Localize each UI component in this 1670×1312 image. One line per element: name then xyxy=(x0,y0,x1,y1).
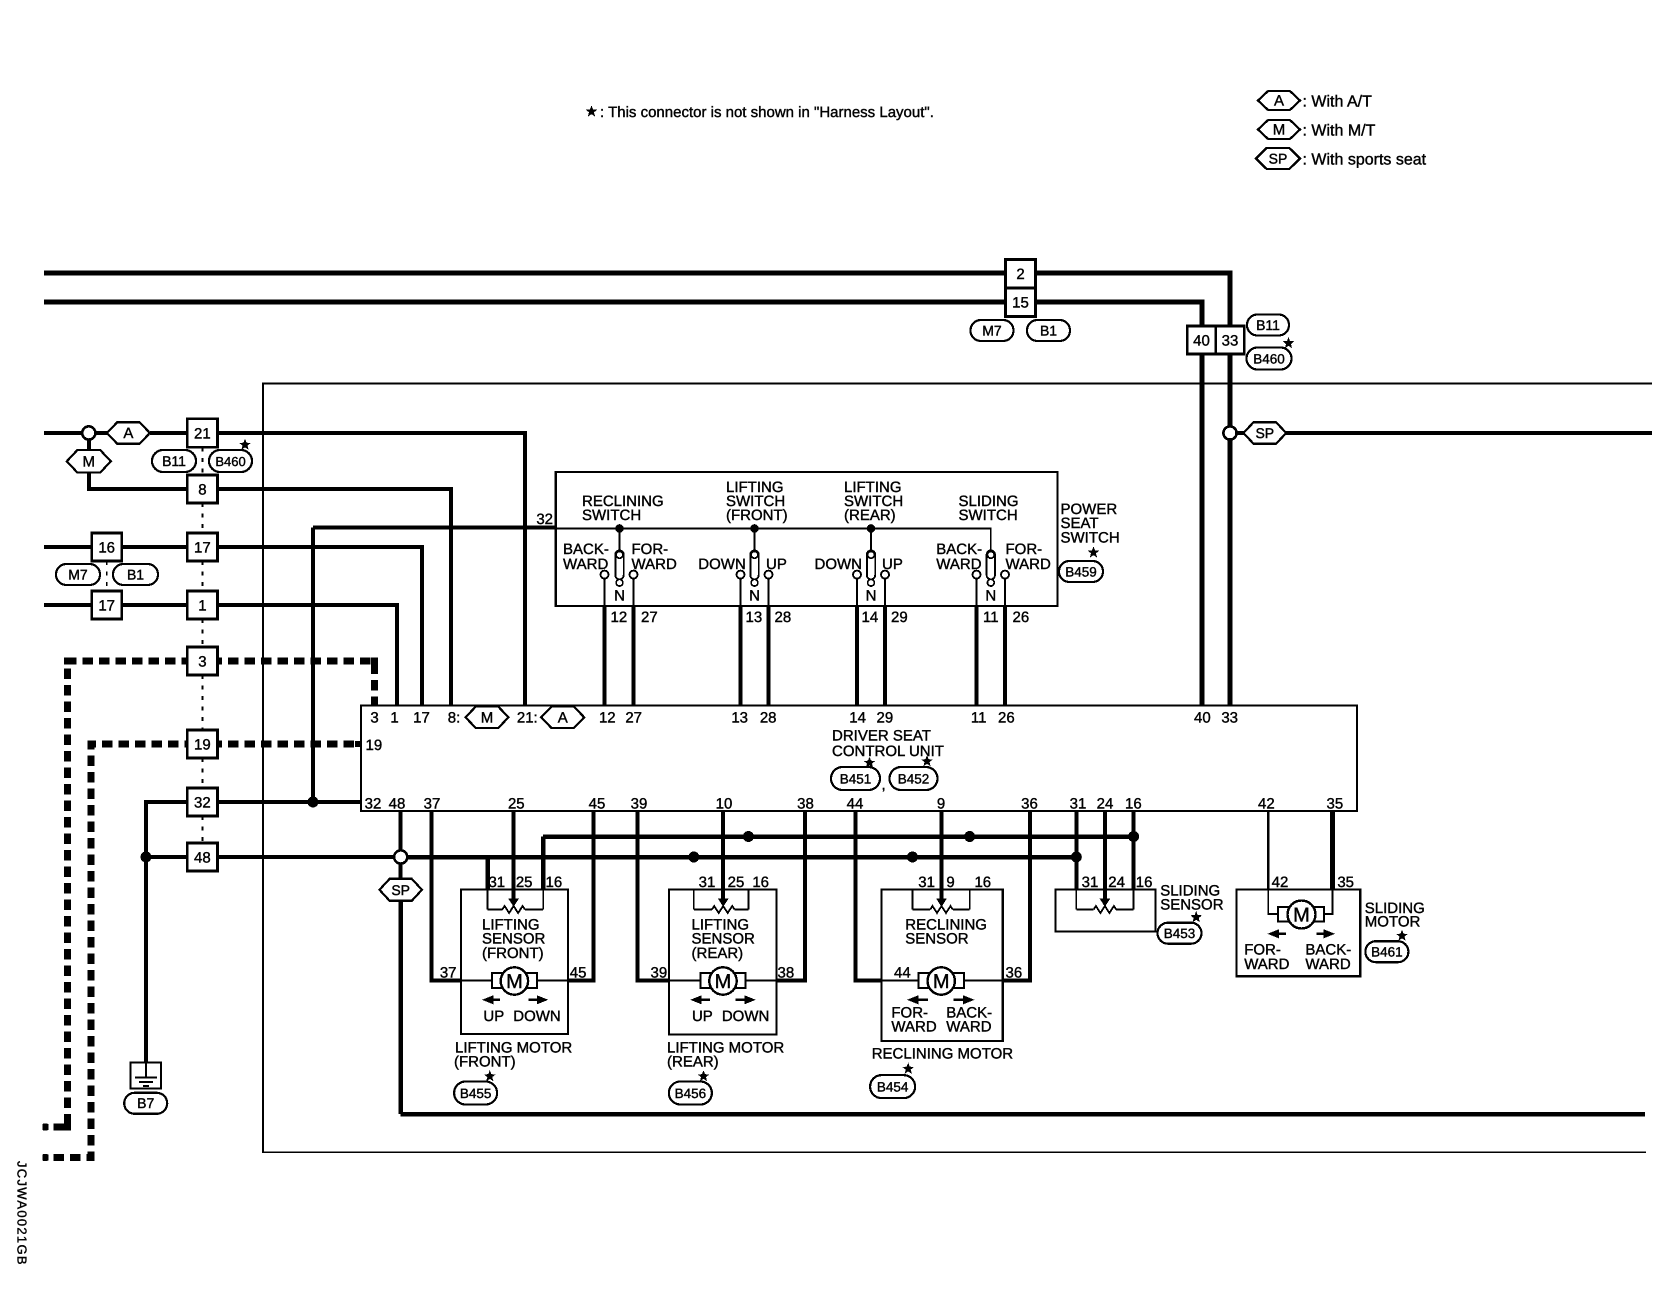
wire: sensor return bus (pin 16 net) xyxy=(543,834,1133,839)
switch lever (neutral) xyxy=(867,550,875,579)
svg-text:32: 32 xyxy=(536,511,553,528)
star for B455 xyxy=(484,1070,496,1081)
svg-text:M: M xyxy=(83,453,96,470)
connector oval B453 xyxy=(1158,923,1202,944)
sliding sensor box xyxy=(1055,890,1155,932)
svg-text:B7: B7 xyxy=(137,1095,154,1111)
wire: connector 21 to control unit pin 21 xyxy=(218,433,525,706)
svg-text:31: 31 xyxy=(1070,796,1087,813)
connector box pin 33 (B11/B460) xyxy=(1216,326,1245,354)
enclosure boundary box (thin) xyxy=(263,384,1652,1153)
svg-text:11: 11 xyxy=(983,609,999,626)
svg-text:39: 39 xyxy=(651,965,668,982)
svg-text:33: 33 xyxy=(1221,710,1238,727)
svg-text:M7: M7 xyxy=(982,322,1002,338)
junction dot at switch common xyxy=(867,524,876,533)
legend hexagon M (With M/T) xyxy=(1258,120,1300,139)
svg-text:35: 35 xyxy=(1327,796,1344,813)
svg-text:(FRONT): (FRONT) xyxy=(454,1053,516,1070)
connector box pin 15 (M7/B1) xyxy=(1006,288,1036,317)
svg-text:29: 29 xyxy=(891,609,908,626)
svg-text:39: 39 xyxy=(631,796,648,813)
svg-text:MOTOR: MOTOR xyxy=(1365,913,1421,930)
svg-text:B460: B460 xyxy=(215,454,245,469)
connector box pin 32 xyxy=(187,788,217,816)
motor terminal tabs (sliding) xyxy=(1278,907,1289,922)
svg-text:16: 16 xyxy=(752,874,769,891)
svg-text:(FRONT): (FRONT) xyxy=(482,945,544,962)
wire: left contact to control unit xyxy=(603,606,607,706)
svg-text:A: A xyxy=(123,425,133,442)
svg-text:40: 40 xyxy=(1193,332,1210,349)
svg-text:14: 14 xyxy=(862,609,879,626)
svg-text:19: 19 xyxy=(366,737,383,754)
motor terminal tabs xyxy=(919,973,930,988)
svg-text:WARD: WARD xyxy=(563,556,608,573)
junction dot bus31/sliding xyxy=(1071,852,1082,863)
svg-text:B455: B455 xyxy=(460,1086,492,1101)
motor circle M xyxy=(709,967,736,994)
svg-text:B453: B453 xyxy=(1164,926,1196,941)
svg-text:8:: 8: xyxy=(448,710,461,727)
motor feed wires xyxy=(669,980,700,982)
connector oval B460 (left) xyxy=(209,450,252,472)
hexagon SP tag on wire 33 split xyxy=(1243,422,1286,444)
svg-text:B452: B452 xyxy=(898,771,930,786)
wire: control unit pin 37 to lifting motor front xyxy=(432,811,462,981)
connector oval B454 xyxy=(870,1075,915,1098)
wire: right contact to control unit xyxy=(767,606,771,706)
svg-text:B460: B460 xyxy=(1253,351,1285,366)
wire: bottom ground bus xyxy=(401,1112,1645,1117)
wire: connector 48 row xyxy=(146,855,187,859)
sensor potentiometer xyxy=(693,890,695,910)
switch common bus inside power seat switch xyxy=(556,529,991,552)
sensor potentiometer xyxy=(912,890,914,910)
hexagon SP tag (bottom left) xyxy=(379,879,422,901)
connector oval B1 (left) xyxy=(113,564,158,585)
hexagon M tag at control unit pin 8 xyxy=(466,707,509,729)
svg-text:26: 26 xyxy=(1013,609,1030,626)
shielded wire: connector 3 branch, exits bottom left xyxy=(43,661,187,1127)
ground connector oval B7 xyxy=(124,1093,167,1114)
svg-text:24: 24 xyxy=(1108,874,1125,891)
wire: control unit pin 10 to lifting sensor rear wiper xyxy=(721,811,725,899)
svg-text:28: 28 xyxy=(760,710,777,727)
wires: power seat switch to control unit xyxy=(603,606,607,706)
svg-text:27: 27 xyxy=(625,710,642,727)
junction dot at switch common xyxy=(750,524,759,533)
wire: contact right to box edge xyxy=(884,579,886,606)
svg-text:44: 44 xyxy=(847,796,864,813)
wire: right contact to control unit xyxy=(632,606,636,706)
note: star symbol xyxy=(586,105,598,116)
connector box pin 1 xyxy=(187,591,217,619)
dashed connector link 21-8 xyxy=(201,447,203,475)
wire: bus corner down to lifting sensor front pin 16 xyxy=(541,837,546,890)
svg-text:N: N xyxy=(614,588,625,605)
svg-text:UP: UP xyxy=(766,556,787,573)
connector oval M7 (top) xyxy=(971,320,1014,341)
svg-text:36: 36 xyxy=(1006,965,1023,982)
motor direction arrows (rear) xyxy=(690,995,702,1004)
wire: connector 32 left corner down to ground run xyxy=(146,802,187,857)
wire: contact right to box edge xyxy=(1004,579,1006,606)
wire: hexagon M down and right to connector 8 xyxy=(89,473,188,489)
connector box pin 2 (M7/B1) xyxy=(1006,260,1036,289)
motor terminal tabs xyxy=(492,973,503,988)
junction dot bus16/lifting rear xyxy=(743,831,754,842)
switch contact right xyxy=(881,571,889,579)
junction dot bus16/reclining xyxy=(964,831,975,842)
svg-text:(REAR): (REAR) xyxy=(667,1053,719,1070)
svg-text:16: 16 xyxy=(974,874,991,891)
legend hexagon SP (With sports seat) xyxy=(1256,148,1300,169)
svg-text:37: 37 xyxy=(424,796,441,813)
connector oval B11 (top right) xyxy=(1247,315,1289,336)
motor feed wires xyxy=(882,980,919,982)
wire: left contact to control unit xyxy=(975,606,979,706)
motor circle M xyxy=(501,967,528,994)
svg-text:19: 19 xyxy=(194,736,211,753)
wire: control unit pin 36 to reclining motor xyxy=(1003,811,1030,981)
svg-text:29: 29 xyxy=(877,710,894,727)
svg-text:WARD: WARD xyxy=(891,1019,936,1036)
svg-text:33: 33 xyxy=(1222,332,1239,349)
motor direction arrows (front) xyxy=(482,995,494,1004)
svg-text:48: 48 xyxy=(194,849,211,866)
svg-text:N: N xyxy=(866,588,877,605)
svg-text:14: 14 xyxy=(849,710,866,727)
svg-text:DOWN: DOWN xyxy=(722,1008,770,1025)
svg-text:M: M xyxy=(933,971,950,993)
svg-text:3: 3 xyxy=(198,653,206,670)
motor feed wires xyxy=(461,980,492,982)
wire: vertical from power seat switch pin 32 feed xyxy=(311,528,315,801)
svg-text:45: 45 xyxy=(570,965,587,982)
svg-text:WARD: WARD xyxy=(1006,556,1051,573)
wire: control unit pin 48 stub down to circle xyxy=(399,811,403,851)
svg-text:31: 31 xyxy=(488,874,505,891)
svg-text:2: 2 xyxy=(1016,266,1024,283)
svg-text:16: 16 xyxy=(1125,796,1142,813)
svg-text:(REAR): (REAR) xyxy=(844,507,896,524)
svg-text:: With M/T: : With M/T xyxy=(1303,123,1376,140)
switch contact left xyxy=(853,571,861,579)
switch lever stem xyxy=(619,529,621,552)
svg-text:36: 36 xyxy=(1021,796,1038,813)
svg-text:B11: B11 xyxy=(162,453,186,469)
switch lever (neutral) xyxy=(987,550,995,579)
connector oval B455 xyxy=(454,1082,497,1105)
svg-text:21:: 21: xyxy=(517,710,538,727)
sensor potentiometer xyxy=(1075,890,1077,910)
svg-text:B454: B454 xyxy=(877,1079,909,1094)
switch contact right xyxy=(1001,571,1009,579)
node: option split circle A/M xyxy=(82,426,95,439)
connector oval B456 xyxy=(669,1082,712,1105)
svg-text:DOWN: DOWN xyxy=(513,1008,561,1025)
svg-text:: With A/T: : With A/T xyxy=(1303,94,1373,111)
svg-text:16: 16 xyxy=(1136,874,1153,891)
svg-text:WARD: WARD xyxy=(946,1019,991,1036)
svg-text:48: 48 xyxy=(389,796,406,813)
svg-text:M: M xyxy=(715,971,732,993)
wire: contact left to box edge xyxy=(604,579,606,606)
wire: circle down to SP hexagon xyxy=(399,864,403,880)
svg-text:N: N xyxy=(749,588,760,605)
wire: control unit pin 9 to reclining sensor wiper xyxy=(940,811,944,899)
svg-text:44: 44 xyxy=(894,965,911,982)
star for B461 xyxy=(1396,930,1408,941)
wire: connector 17 to control unit pin 17 xyxy=(218,547,422,706)
svg-text:31: 31 xyxy=(1082,874,1099,891)
svg-text:31: 31 xyxy=(699,874,716,891)
connector oval B460 (top right) xyxy=(1247,348,1292,370)
wire: power seat switch pin 32 feed xyxy=(313,526,556,530)
svg-text:16: 16 xyxy=(98,539,115,556)
svg-text:DOWN: DOWN xyxy=(815,556,863,573)
lifting motor front box xyxy=(461,890,568,1035)
star for B452 xyxy=(921,755,933,766)
svg-text:25: 25 xyxy=(516,874,533,891)
wire: branch bus to lifting sensor front pin 31 xyxy=(485,857,490,890)
motor direction arrows (sliding) xyxy=(1267,929,1279,938)
svg-text:N: N xyxy=(985,588,996,605)
wire: vertical pin 40 down to control unit xyxy=(1200,354,1205,706)
reclining motor box xyxy=(882,890,1003,1042)
wire: control unit pin 25 to lifting sensor front wiper xyxy=(512,811,516,899)
svg-text:9: 9 xyxy=(937,796,945,813)
svg-text:JCJWA0021GB: JCJWA0021GB xyxy=(15,1161,30,1266)
wire: circle down to hexagon M xyxy=(87,440,91,451)
svg-text:SP: SP xyxy=(1255,425,1274,441)
wire: contact right to box edge xyxy=(768,579,770,606)
sliding motor box xyxy=(1237,890,1361,977)
wire: connector 32 to control unit left edge xyxy=(218,800,361,804)
svg-text:25: 25 xyxy=(728,874,745,891)
connector box pin 16 (M7/B1) xyxy=(92,533,122,561)
svg-text:38: 38 xyxy=(797,796,814,813)
svg-text:24: 24 xyxy=(1097,796,1114,813)
svg-text:SP: SP xyxy=(391,882,410,898)
svg-text:12: 12 xyxy=(599,710,616,727)
wire: ground drop to B7 xyxy=(144,857,148,1063)
svg-text:26: 26 xyxy=(998,710,1015,727)
wire: contact left to box edge xyxy=(740,579,742,606)
ground symbol xyxy=(131,1063,161,1089)
node: option split circle on wire 33 xyxy=(1223,426,1236,439)
wire: hexagon A to connector 21 xyxy=(150,431,188,435)
svg-text:B1: B1 xyxy=(1040,322,1057,338)
connector box pin 40 (B11/B460) xyxy=(1187,326,1216,354)
wire: SP branch to right edge xyxy=(1237,431,1652,435)
svg-text:15: 15 xyxy=(1012,295,1029,312)
wire: contact left to box edge xyxy=(856,579,858,606)
svg-text:32: 32 xyxy=(365,796,382,813)
svg-text:M: M xyxy=(1293,905,1310,927)
sliding motor feed wires xyxy=(1268,890,1278,915)
power seat switch box xyxy=(556,472,1058,606)
svg-text:(FRONT): (FRONT) xyxy=(726,507,788,524)
wire: right contact to control unit xyxy=(1003,606,1007,706)
star for B460 (left) xyxy=(239,439,251,450)
motor circle M xyxy=(928,967,955,994)
legend hexagon A (With A/T) xyxy=(1258,91,1300,110)
svg-text:SWITCH: SWITCH xyxy=(959,507,1018,524)
svg-text:B456: B456 xyxy=(675,1086,707,1101)
svg-text:: This connector is not shown: : This connector is not shown in "Harnes… xyxy=(600,104,934,121)
wire: control unit pin 16 down to sliding sensor xyxy=(1132,811,1136,890)
svg-text:12: 12 xyxy=(611,609,628,626)
hexagon A tag xyxy=(107,422,150,444)
svg-text:3: 3 xyxy=(370,710,378,727)
connector oval B461 xyxy=(1365,941,1408,962)
svg-text:1: 1 xyxy=(198,597,206,614)
svg-text:35: 35 xyxy=(1337,874,1354,891)
dashed connector link 16-17 (left) xyxy=(106,561,108,591)
svg-text:RECLINING MOTOR: RECLINING MOTOR xyxy=(872,1045,1014,1062)
svg-text:38: 38 xyxy=(778,965,795,982)
connector oval M7 (left) xyxy=(56,564,100,585)
svg-text:SWITCH: SWITCH xyxy=(1061,529,1120,546)
wire: control unit pin 24 to sliding sensor wiper xyxy=(1103,811,1107,899)
wire: connector 48 to option circle xyxy=(218,855,395,859)
connector box pin 17 xyxy=(187,533,217,561)
connector box pin 48 xyxy=(187,843,217,871)
wire: sensor supply bus (pin 48 net) xyxy=(407,855,1076,860)
wire: feed into A/M option split xyxy=(44,431,82,435)
svg-text:M: M xyxy=(506,971,523,993)
svg-text:32: 32 xyxy=(194,794,211,811)
svg-text:B11: B11 xyxy=(1256,317,1280,333)
wire: control unit pin 42 to sliding motor xyxy=(1267,811,1270,890)
hexagon M tag xyxy=(67,450,111,473)
svg-text:40: 40 xyxy=(1194,710,1211,727)
wire: right contact to control unit xyxy=(883,606,887,706)
switch contact right xyxy=(765,571,773,579)
svg-text:DOWN: DOWN xyxy=(698,556,746,573)
connector box pin 3 xyxy=(187,647,217,675)
star for B456 xyxy=(698,1070,710,1081)
svg-text:8: 8 xyxy=(198,481,206,498)
driver seat control unit box xyxy=(361,706,1357,812)
svg-text:37: 37 xyxy=(440,965,457,982)
wire: connector 1 to control unit pin 1 xyxy=(218,605,397,706)
wire: control unit pin 45 to lifting motor front xyxy=(568,811,593,981)
switch contact right xyxy=(630,571,638,579)
wire: SP branch down to bottom bus xyxy=(398,901,403,1114)
wire: top supply 1 through connector pin 2, corner down at x=1230 xyxy=(44,273,1230,326)
connector box pin 21 (B11/B460) xyxy=(187,419,217,448)
svg-text:(REAR): (REAR) xyxy=(692,945,744,962)
svg-text:9: 9 xyxy=(946,874,954,891)
switch lever stem xyxy=(870,529,872,552)
wire: control unit pin 38 to lifting motor rear xyxy=(776,811,804,981)
shielded wire: connector 3 to control unit pin 3 xyxy=(218,661,375,706)
star for B451 xyxy=(864,757,876,768)
svg-text:B459: B459 xyxy=(1065,564,1097,579)
junction dot at switch common xyxy=(615,524,624,533)
svg-text:A: A xyxy=(1274,93,1284,110)
switch contact left xyxy=(737,571,745,579)
connector oval B11 (left) xyxy=(152,450,196,472)
junction dot bus31/lifting rear xyxy=(688,852,699,863)
svg-text:1: 1 xyxy=(390,710,398,727)
svg-text:16: 16 xyxy=(546,874,563,891)
svg-text:SWITCH: SWITCH xyxy=(582,507,641,524)
wire: between 16 and 17 xyxy=(122,545,188,549)
svg-text:WARD: WARD xyxy=(1305,956,1350,973)
svg-text:,: , xyxy=(882,777,886,794)
svg-text:42: 42 xyxy=(1272,874,1289,891)
svg-text:UP: UP xyxy=(483,1008,504,1025)
wire: row through connectors 17 and 1 xyxy=(44,603,92,607)
svg-text:: With sports seat: : With sports seat xyxy=(1303,152,1427,169)
wire: connector 8 to control unit pin 8 xyxy=(218,489,451,706)
connector box pin 19 xyxy=(187,730,217,758)
junction dot bus31/reclining xyxy=(907,852,918,863)
svg-text:SENSOR: SENSOR xyxy=(905,931,969,948)
svg-text:17: 17 xyxy=(194,539,211,556)
svg-text:31: 31 xyxy=(918,874,935,891)
wire: control unit pin 39 to lifting motor rear xyxy=(637,811,669,981)
svg-text:WARD: WARD xyxy=(1244,956,1289,973)
shielded wire: connector 19 branch, exits bottom left xyxy=(43,744,187,1158)
junction dot on wire 48 / ground xyxy=(141,852,152,863)
wire: left contact to control unit xyxy=(739,606,743,706)
wire: pin 33 continues down to control unit xyxy=(1228,440,1233,706)
lifting motor rear box xyxy=(669,890,776,1035)
svg-text:M7: M7 xyxy=(68,566,88,582)
svg-text:SENSOR: SENSOR xyxy=(1160,897,1224,914)
switch contact left xyxy=(973,571,981,579)
svg-text:WARD: WARD xyxy=(632,556,677,573)
svg-text:11: 11 xyxy=(971,710,987,727)
svg-text:M: M xyxy=(1273,122,1286,139)
connector box pin 17 (left, M7/B1) xyxy=(92,591,122,619)
svg-text:42: 42 xyxy=(1258,796,1275,813)
motor direction arrows (reclining) xyxy=(907,995,919,1004)
svg-text:45: 45 xyxy=(589,796,606,813)
star for B454 xyxy=(902,1063,914,1074)
connector box pin 8 xyxy=(187,475,217,503)
connector oval B452 xyxy=(890,767,938,790)
svg-text:A: A xyxy=(558,709,568,726)
wire: row through connectors 16 and 17 xyxy=(44,545,92,549)
svg-text:DRIVER SEAT: DRIVER SEAT xyxy=(832,728,931,745)
switch lever (neutral) xyxy=(615,550,623,579)
wire: control unit pin 44 to reclining motor xyxy=(856,811,882,981)
motor terminal tabs xyxy=(700,973,711,988)
connector oval B1 (top) xyxy=(1027,320,1070,341)
wire: control unit pin 31 down to sliding sensor xyxy=(1074,811,1078,890)
svg-text:WARD: WARD xyxy=(936,556,981,573)
wire: contact left to box edge xyxy=(976,579,978,606)
svg-text:B1: B1 xyxy=(127,566,144,582)
motor circle M (sliding) xyxy=(1288,901,1316,929)
hexagon A tag at control unit pin 21 xyxy=(541,707,584,729)
wire: top supply 2 through connector pin 15, corner down at x=1202 xyxy=(44,302,1202,326)
wire: control unit pin 35 to sliding motor xyxy=(1330,811,1335,890)
star for B453 xyxy=(1190,911,1202,922)
star for B460 (top right) xyxy=(1283,337,1295,348)
wire: between 17 and 1 xyxy=(122,603,188,607)
svg-text:28: 28 xyxy=(775,609,792,626)
svg-text:M: M xyxy=(481,709,494,726)
svg-text:25: 25 xyxy=(508,796,525,813)
svg-text:21: 21 xyxy=(194,425,211,442)
